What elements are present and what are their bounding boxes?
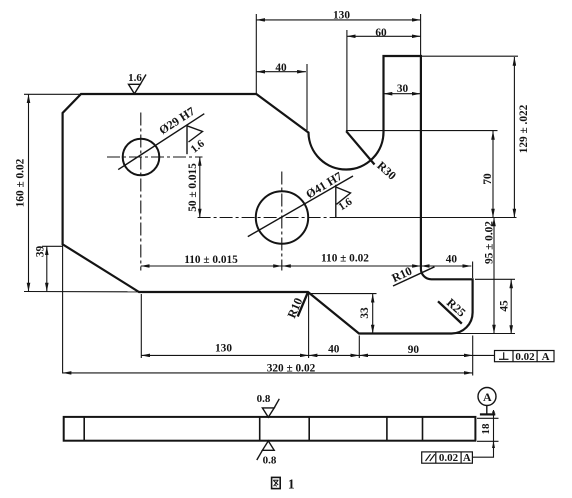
svg-text:40: 40 xyxy=(328,344,340,356)
svg-text:R10: R10 xyxy=(389,264,414,285)
extension left edge down (320 dim) xyxy=(62,245,64,374)
leader R10 right xyxy=(393,267,435,286)
dimension 129 ±.022 xyxy=(513,57,515,218)
extension right step (90/320 dims) xyxy=(472,336,474,376)
side view segment line 3 xyxy=(308,417,310,441)
svg-text:1.6: 1.6 xyxy=(336,195,354,213)
dimension 110 ± 0.02 xyxy=(282,265,421,267)
part outline main view xyxy=(63,56,473,334)
extension step top (45 dim) xyxy=(475,278,515,280)
roughness mark 1.6 top edge xyxy=(129,75,147,94)
dimension 130 bottom xyxy=(141,354,308,356)
extension 160 top left xyxy=(24,93,80,95)
svg-text:R10: R10 xyxy=(284,296,305,320)
side view segment line 1 xyxy=(83,417,85,441)
extension shoulder line (70 dim top) xyxy=(346,130,498,132)
extension 40r right xyxy=(472,262,474,279)
extension lines top dims xyxy=(256,14,420,131)
svg-text:0.02: 0.02 xyxy=(515,351,535,363)
dimension 39 xyxy=(46,246,48,291)
side view segment line 5 xyxy=(422,417,424,441)
parallelism tolerance frame xyxy=(422,452,473,463)
dimension 40 right xyxy=(421,265,471,267)
side view outline xyxy=(64,417,476,441)
leader R25 xyxy=(438,301,462,323)
svg-text:70: 70 xyxy=(482,173,494,185)
extension 39 top xyxy=(42,245,63,247)
extension 130b/40b shared xyxy=(308,294,310,358)
leader Ø29 H7 xyxy=(118,114,204,170)
svg-text:0.8: 0.8 xyxy=(257,393,271,405)
svg-text:320 ± 0.02: 320 ± 0.02 xyxy=(267,363,316,375)
roughness mark 0.8 top of side view xyxy=(262,399,279,417)
svg-text:18: 18 xyxy=(480,423,492,435)
svg-text:A: A xyxy=(463,452,471,464)
roughness mark 1.6 at Ø41 leader xyxy=(336,185,351,217)
dimension 50 ± 0.015 xyxy=(199,157,201,218)
svg-text:110 ± 0.02: 110 ± 0.02 xyxy=(321,253,369,265)
svg-text:60: 60 xyxy=(375,27,387,39)
svg-text:40: 40 xyxy=(275,62,287,74)
dimension 70 xyxy=(492,131,494,218)
perpendicularity tolerance frame xyxy=(495,351,555,362)
svg-text:90: 90 xyxy=(408,344,420,356)
side view segment line 4 xyxy=(386,417,388,441)
dimension 40 top xyxy=(256,71,306,73)
dimension 160 ± 0.02 xyxy=(28,94,30,291)
svg-text:95 ± 0.02: 95 ± 0.02 xyxy=(484,221,496,264)
svg-text:45: 45 xyxy=(499,300,511,312)
leader R30 xyxy=(346,131,374,164)
extension bottom edge right (95/45 dims) xyxy=(455,333,515,335)
hole Ø29 H7 xyxy=(123,139,160,176)
dimension 40 bottom xyxy=(309,354,360,356)
leader Ø41 H7 xyxy=(248,176,353,237)
extension tab top right (129 dim) xyxy=(422,55,518,57)
dimension 95 ± 0.02 xyxy=(493,218,495,334)
svg-text:130: 130 xyxy=(333,10,350,22)
caption 图 1 xyxy=(272,477,281,488)
svg-text:R25: R25 xyxy=(444,295,469,319)
svg-text:0.8: 0.8 xyxy=(263,455,277,467)
dimension 90 bottom xyxy=(359,354,472,356)
svg-text:33: 33 xyxy=(359,307,371,319)
dimension 110 ± 0.015 xyxy=(141,265,282,267)
dimension 60 xyxy=(347,35,421,37)
svg-text:129 ± .022: 129 ± .022 xyxy=(518,104,530,153)
dimension 18 line xyxy=(493,410,495,448)
hole Ø41 H7 xyxy=(256,191,308,243)
dimension 130 top xyxy=(256,19,420,21)
extension 40b/90b shared xyxy=(358,336,360,359)
leader R10 bottom-left xyxy=(298,293,308,317)
centerline Ø29 horizontal xyxy=(107,156,203,158)
svg-text:0.02: 0.02 xyxy=(439,452,459,464)
svg-text:160 ± 0.02: 160 ± 0.02 xyxy=(15,158,27,207)
roughness mark 0.8 bottom of side view xyxy=(257,441,274,460)
roughness mark 1.6 at Ø29 leader xyxy=(187,126,203,154)
extension lines 18 dim xyxy=(477,417,499,419)
svg-text:A: A xyxy=(542,351,550,363)
dimension 320 ± 0.02 xyxy=(63,372,473,374)
dimension 30 xyxy=(384,93,421,95)
leader to parallelism frame xyxy=(472,441,493,457)
svg-text:A: A xyxy=(483,390,492,404)
leader to perpendicularity frame xyxy=(473,354,495,356)
dimension 33 xyxy=(372,294,374,334)
dimension 45 xyxy=(510,280,512,335)
extension 130b left xyxy=(140,294,142,358)
svg-text:1.6: 1.6 xyxy=(128,72,142,84)
centerline Ø41 horizontal (extends right as extension line) xyxy=(198,217,340,219)
svg-text:130: 130 xyxy=(215,343,232,355)
side view segment line 2 xyxy=(259,417,261,441)
centerline Ø41 vertical xyxy=(281,172,283,271)
svg-text:50 ± 0.015: 50 ± 0.015 xyxy=(187,163,199,212)
svg-text:1: 1 xyxy=(288,477,295,492)
svg-text:40: 40 xyxy=(446,254,458,266)
extension bottom-left edge (160/39) xyxy=(24,291,139,293)
svg-text:39: 39 xyxy=(35,246,47,258)
centerline Ø29 vertical xyxy=(140,113,142,271)
datum A symbol xyxy=(478,388,496,406)
svg-text:30: 30 xyxy=(397,83,409,95)
svg-text:R30: R30 xyxy=(374,158,399,182)
extension 33 top xyxy=(311,293,377,295)
svg-text:110 ± 0.015: 110 ± 0.015 xyxy=(184,254,238,266)
